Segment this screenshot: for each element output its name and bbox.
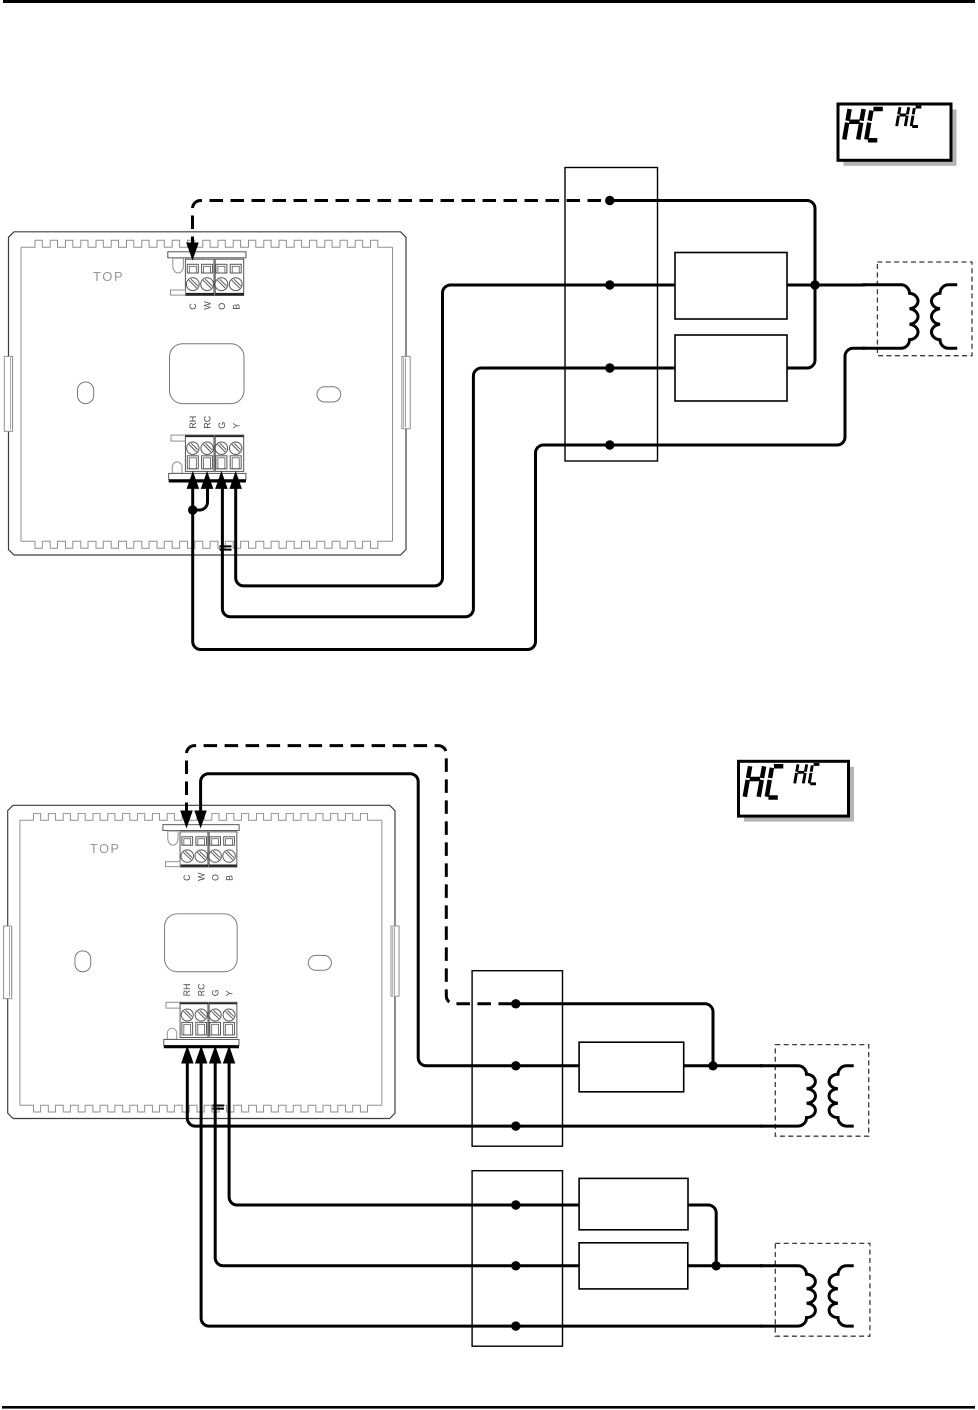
arrow into G terminal 2 [209, 1046, 222, 1064]
arrow into C terminal [186, 243, 199, 261]
junction C row strip 2 [511, 999, 520, 1008]
thermostat 2: outer base plate [8, 805, 395, 1118]
wire crossing mark diagram 1 [220, 546, 232, 549]
transformer T2 secondary coil [829, 1066, 854, 1126]
thermostat 1: upper block wire opening [216, 264, 227, 273]
LCD display 1 box [838, 104, 951, 160]
wire: strip 2 C row to T2 primary top [516, 1004, 713, 1066]
thermostat 1: lower block screw [215, 442, 227, 454]
svg-text:B: B [225, 875, 235, 881]
arrow into RH terminal [187, 471, 200, 489]
LCD display 1 small "HC" 7-segment [897, 107, 909, 126]
thermostat 1: right mounting slot [317, 387, 341, 402]
thermostat 1: lower block mounting bar [169, 473, 246, 479]
arrow into RH terminal 2 [181, 1046, 194, 1064]
svg-text:G: G [210, 989, 220, 996]
LCD display 2 drop shadow [744, 767, 854, 822]
thermostat 2: lower block wire opening [224, 1022, 235, 1035]
wire: RC jumper to RH [193, 483, 208, 510]
wire: Y terminal to relay 1 [236, 285, 675, 586]
page top rule [3, 0, 975, 3]
thermostat 1: lower block wire opening [187, 456, 198, 469]
thermostat 1: lower block wire opening [202, 456, 213, 469]
thermostat 2: lower block screw [223, 1009, 235, 1021]
transformer T2 primary coil [760, 1066, 815, 1126]
thermostat 2: upper block screw [209, 850, 221, 862]
arrow into C terminal 2 [180, 811, 193, 829]
svg-text:RC: RC [196, 984, 206, 997]
arrow into G terminal [215, 471, 228, 489]
junction Y row [605, 280, 614, 289]
thermostat 2: lower block screw [181, 1009, 193, 1021]
thermostat 2: upper block wire opening [182, 837, 193, 845]
thermostat 2: lower block screw [195, 1009, 207, 1021]
wire: G terminal to relay 2 [222, 368, 675, 617]
junction G row strip 3 [511, 1261, 520, 1270]
LCD display 2 large "HC" 7-segment [745, 766, 764, 797]
wire: W terminal 2 to relay 3 [201, 774, 579, 1066]
arrow into RC terminal 2 [195, 1046, 208, 1064]
thermostat 1: upper terminal block body [185, 259, 214, 295]
thermostat 1: left side clip tab [4, 356, 12, 431]
thermostat 1: lower block wire opening [230, 456, 241, 469]
thermostat 2: upper block wire opening [210, 837, 221, 845]
thermostat 1: upper block wire opening [187, 264, 198, 273]
thermostat 2: left side clip tab [4, 926, 12, 999]
transformer T2 enclosure (dashed) [775, 1045, 868, 1137]
junction on dashed C line [605, 196, 614, 205]
junction G row [605, 363, 614, 372]
junction W row strip 2 [511, 1061, 520, 1070]
wire: strip to relay 2 right side [610, 201, 815, 369]
thermostat base 2 [4, 805, 399, 1118]
terminal strip 3 [472, 1171, 562, 1347]
thermostat 2: inner plate with castellated edges [20, 813, 382, 820]
wire: relay 1 to transformer T1 primary [787, 284, 865, 287]
thermostat 2: lower block wire opening [182, 1022, 193, 1035]
transformer T1 secondary coil [931, 285, 957, 349]
svg-text:RH: RH [188, 416, 198, 429]
page bottom rule [2, 1406, 975, 1409]
thermostat 2: upper block wire opening [224, 837, 235, 845]
thermostat 1: upper block wire opening [230, 264, 241, 273]
junction at relay1/T1/C line [810, 280, 819, 289]
thermostat 2: right mounting slot [308, 955, 331, 970]
relay box 4 [579, 1178, 688, 1229]
thermostat 2: lower terminal block body [166, 1002, 180, 1008]
thermostat 1: right side clip tab [402, 356, 410, 428]
thermostat 1: upper block screw [186, 278, 199, 291]
thermostat 1: lower block screw [230, 442, 242, 454]
terminal strip 2 [472, 971, 562, 1146]
wire: relay 5 to T3 primary [688, 1264, 763, 1267]
thermostat 1: upper block screw [229, 278, 242, 291]
relay box 1 (heat) [675, 253, 787, 320]
thermostat 2: right side clip tab [391, 926, 399, 996]
thermostat 1: center opening [170, 344, 245, 404]
thermostat 2: left mounting slot [75, 951, 91, 972]
LCD display 1 large "HC" 7-segment [844, 109, 863, 140]
svg-text:G: G [217, 422, 227, 429]
wire: RH terminal 2 to T2 primary low side [187, 1058, 763, 1126]
junction RC row strip 3 [511, 1321, 520, 1330]
wire: relay 4 to relay 5 output junction [688, 1205, 716, 1266]
svg-text:TOP: TOP [90, 842, 120, 856]
thermostat 2: upper block screw [223, 850, 235, 862]
thermostat 2: upper terminal block body [180, 832, 208, 867]
thermostat 1: lower block wire opening [216, 456, 227, 469]
svg-text:W: W [202, 301, 212, 310]
thermostat 1: inner plate with castellated edges [21, 240, 393, 247]
wire: RH terminal to transformer T1 secondary low side [193, 348, 865, 649]
thermostat 1: lower block LED post [172, 462, 182, 474]
wire: Y terminal 2 to relay 4 [229, 1058, 579, 1205]
thermostat 2: lower block wire opening [210, 1022, 221, 1035]
thermostat 2: upper terminal block mounting bar [163, 825, 239, 831]
thermostat 2: lower block LED post [167, 1028, 176, 1039]
thermostat 1: upper terminal block mounting bar [168, 252, 246, 258]
thermostat 2: upper block screw [195, 850, 207, 862]
transformer T1 enclosure (dashed) [877, 262, 972, 356]
thermostat 1: left mounting slot [78, 382, 94, 404]
thermostat 1: lower block screw [187, 442, 199, 454]
svg-text:C: C [182, 875, 192, 881]
transformer T3 enclosure (dashed) [775, 1243, 870, 1336]
thermostat 1: upper block screw [201, 278, 214, 291]
arrow into Y terminal 2 [223, 1046, 236, 1064]
svg-text:RC: RC [202, 415, 212, 428]
junction RH/RC jumper [188, 505, 197, 514]
arrow into RC terminal [201, 471, 214, 489]
transformer T1 primary coil [862, 285, 918, 349]
wire crossing mark diagram 2 [213, 1106, 225, 1109]
wire: RC terminal 2 to T3 primary low side [201, 1058, 763, 1326]
arrow into Y terminal [229, 471, 242, 489]
terminal strip 1 [565, 168, 658, 462]
LCD display 1 drop shadow [844, 110, 957, 166]
arrow into W terminal 2 [194, 811, 207, 829]
thermostat 1: outer base plate [9, 232, 407, 555]
junction C / T2 primary [708, 1061, 717, 1070]
wire: relay 3 to T2 primary [684, 1064, 763, 1067]
thermostat 2: upper block screw [181, 850, 193, 862]
thermostat 1: upper block screw [215, 278, 228, 291]
svg-text:C: C [188, 303, 198, 310]
junction Y row strip 3 [511, 1200, 520, 1209]
wire: C terminal to strip (dashed) [193, 201, 610, 251]
svg-text:O: O [217, 303, 227, 310]
wire: G terminal 2 to relay 5 [215, 1058, 579, 1266]
thermostat 1: lower block screw [201, 442, 213, 454]
thermostat 2: upper block wire opening [196, 837, 207, 845]
wire: C terminal 2 to strip 2 (dashed) [187, 746, 516, 1004]
svg-text:Y: Y [225, 990, 235, 996]
svg-text:O: O [210, 874, 220, 881]
transformer T3 secondary coil [829, 1266, 854, 1326]
LCD display 2 small "HC" 7-segment [795, 764, 807, 783]
thermostat 1: upper block wire opening [202, 264, 213, 273]
svg-text:TOP: TOP [93, 269, 124, 284]
LCD display 2 box [739, 761, 849, 816]
relay box 5 [579, 1243, 688, 1289]
thermostat 2: lower block mounting bar [164, 1039, 239, 1045]
thermostat 1: upper block LED post [173, 258, 184, 273]
junction RH row [605, 440, 614, 449]
junction RH row strip 2 [511, 1121, 520, 1130]
thermostat base 1 [4, 232, 410, 555]
svg-text:Y: Y [231, 423, 241, 429]
thermostat 2: lower block wire opening [196, 1022, 207, 1035]
thermostat 2: center opening [165, 914, 238, 972]
junction relay4/relay5/T3 [712, 1261, 721, 1270]
transformer T3 primary coil [760, 1266, 815, 1326]
svg-text:W: W [196, 872, 206, 881]
relay box 3 (heat) [579, 1042, 684, 1092]
relay box 2 (cool) [675, 335, 787, 401]
thermostat 2: upper block LED post [168, 831, 178, 845]
thermostat 1: lower terminal block body [171, 435, 186, 441]
svg-text:B: B [231, 304, 241, 310]
thermostat 2: lower block screw [209, 1009, 221, 1021]
svg-text:RH: RH [182, 984, 192, 997]
